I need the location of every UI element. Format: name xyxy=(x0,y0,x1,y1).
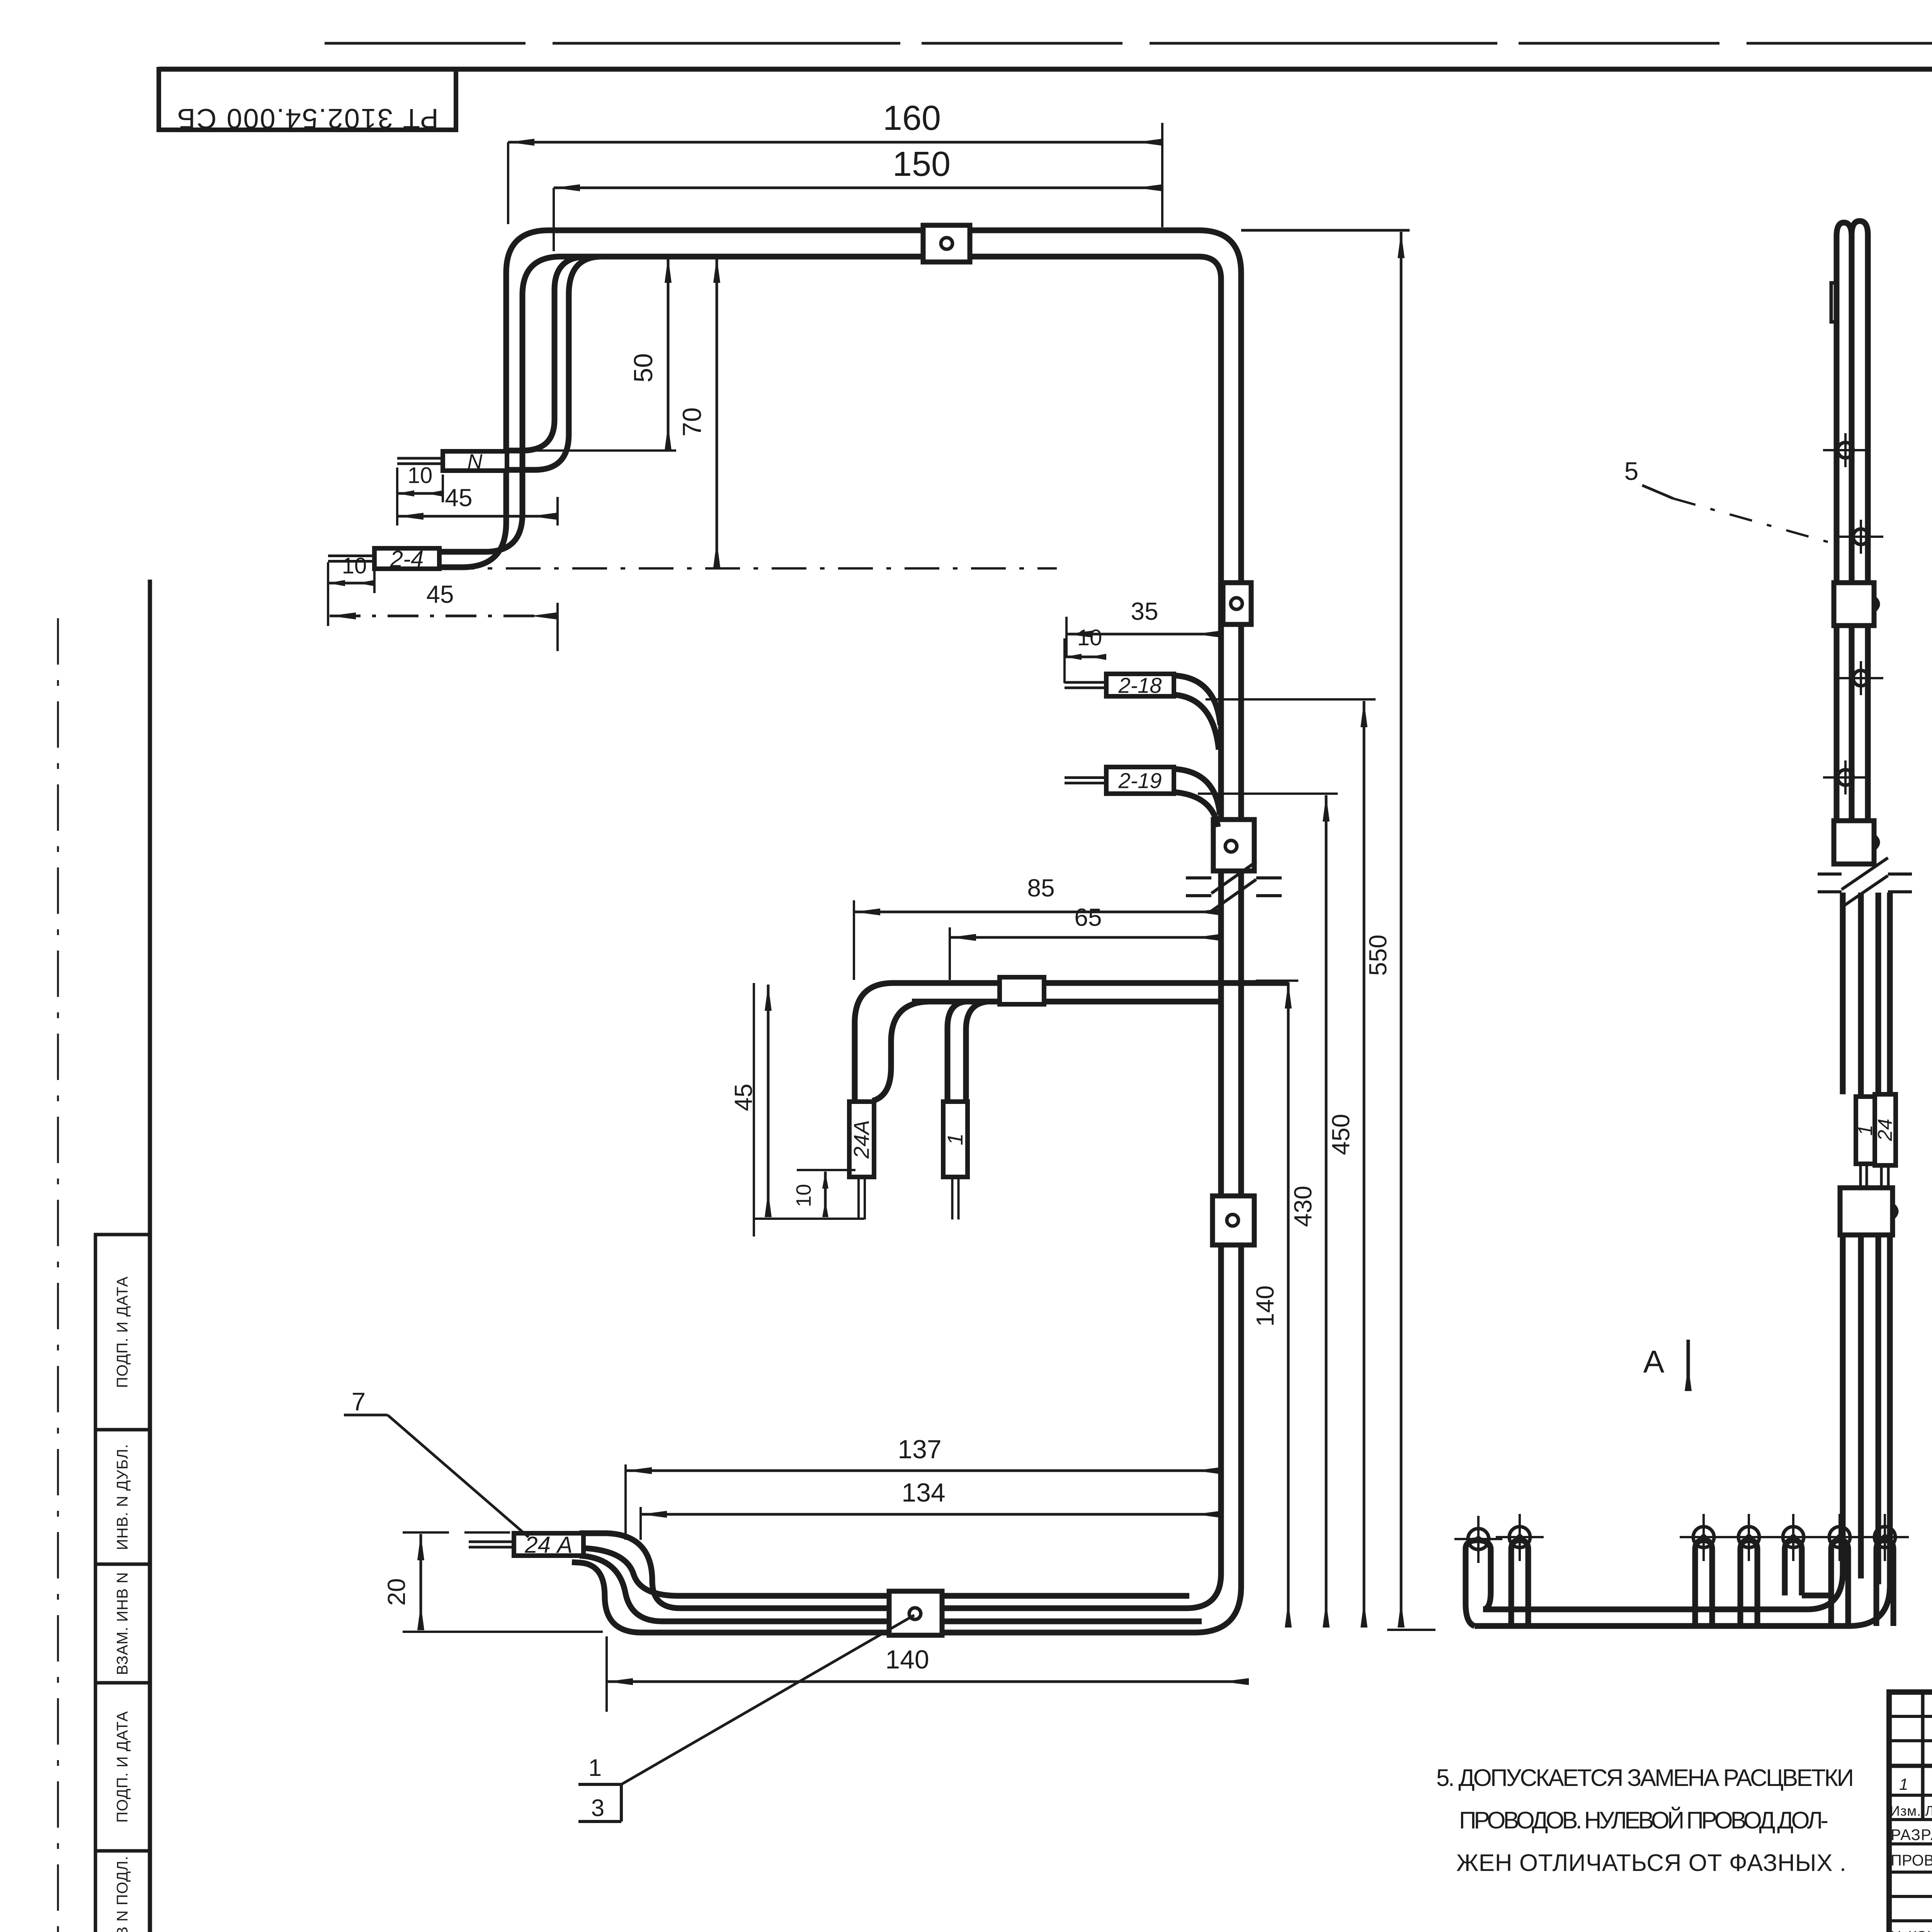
svg-text:70: 70 xyxy=(677,407,707,437)
svg-text:2-18: 2-18 xyxy=(1118,673,1162,697)
svg-text:450: 450 xyxy=(1327,1114,1355,1155)
svg-text:550: 550 xyxy=(1364,935,1392,976)
svg-text:65: 65 xyxy=(1074,903,1102,931)
svg-text:45: 45 xyxy=(730,1083,757,1111)
svg-text:24А: 24А xyxy=(849,1120,873,1159)
svg-text:1: 1 xyxy=(943,1133,967,1145)
svg-text:10: 10 xyxy=(1077,625,1102,650)
svg-text:ИНВ. N ДУБЛ.: ИНВ. N ДУБЛ. xyxy=(114,1444,131,1550)
svg-text:РТ 3102.54.000 СБ: РТ 3102.54.000 СБ xyxy=(176,103,438,134)
svg-text:ЖЕН ОТЛИЧАТЬСЯ ОТ ФАЗНЫХ .: ЖЕН ОТЛИЧАТЬСЯ ОТ ФАЗНЫХ . xyxy=(1456,1850,1846,1876)
svg-text:1: 1 xyxy=(588,1755,602,1781)
svg-text:20: 20 xyxy=(383,1578,410,1605)
svg-text:134: 134 xyxy=(901,1478,945,1507)
svg-text:140: 140 xyxy=(1251,1286,1279,1327)
svg-text:50: 50 xyxy=(629,353,658,383)
svg-text:ИНВ N ПОДЛ.: ИНВ N ПОДЛ. xyxy=(114,1856,131,1932)
svg-text:45: 45 xyxy=(426,580,454,608)
svg-text:Н. КОНТР.: Н. КОНТР. xyxy=(1891,1929,1932,1932)
svg-text:РАЗРАБ.: РАЗРАБ. xyxy=(1891,1827,1932,1844)
svg-text:1: 1 xyxy=(1899,1775,1908,1793)
svg-text:10: 10 xyxy=(408,463,433,488)
svg-text:2-4: 2-4 xyxy=(390,546,424,572)
svg-text:430: 430 xyxy=(1289,1186,1317,1227)
svg-text:137: 137 xyxy=(898,1435,941,1464)
svg-text:85: 85 xyxy=(1027,874,1054,902)
svg-text:24: 24 xyxy=(1874,1119,1896,1141)
svg-text:10: 10 xyxy=(342,553,367,578)
svg-text:150: 150 xyxy=(893,145,951,184)
svg-text:7: 7 xyxy=(352,1387,366,1416)
svg-text:ПОДП. И ДАТА: ПОДП. И ДАТА xyxy=(114,1276,131,1388)
svg-text:35: 35 xyxy=(1131,597,1158,625)
svg-text:N: N xyxy=(468,450,483,473)
svg-text:ПРОВОДОВ. НУЛЕВОЙ ПРОВОД ДОЛ: ПРОВОДОВ. НУЛЕВОЙ ПРОВОД ДОЛ- xyxy=(1459,1807,1828,1834)
svg-text:Лист: Лист xyxy=(1925,1803,1932,1819)
svg-text:160: 160 xyxy=(883,99,941,138)
svg-text:45: 45 xyxy=(445,484,472,512)
svg-text:10: 10 xyxy=(792,1184,815,1207)
svg-text:3: 3 xyxy=(591,1795,604,1821)
svg-text:ПРОВЕР.: ПРОВЕР. xyxy=(1891,1852,1932,1869)
svg-text:2-19: 2-19 xyxy=(1118,769,1162,793)
svg-text:ПОДП. И ДАТА: ПОДП. И ДАТА xyxy=(114,1711,131,1823)
svg-text:5. ДОПУСКАЕТСЯ ЗАМЕНА РАСЦВЕ: 5. ДОПУСКАЕТСЯ ЗАМЕНА РАСЦВЕТКИ xyxy=(1436,1765,1854,1791)
svg-text:ВЗАМ. ИНВ N: ВЗАМ. ИНВ N xyxy=(114,1572,131,1675)
svg-text:140: 140 xyxy=(885,1645,929,1674)
svg-text:А: А xyxy=(1643,1344,1665,1379)
svg-text:5: 5 xyxy=(1624,457,1639,485)
svg-text:24 А: 24 А xyxy=(524,1532,572,1558)
svg-text:Изм.: Изм. xyxy=(1890,1803,1921,1819)
